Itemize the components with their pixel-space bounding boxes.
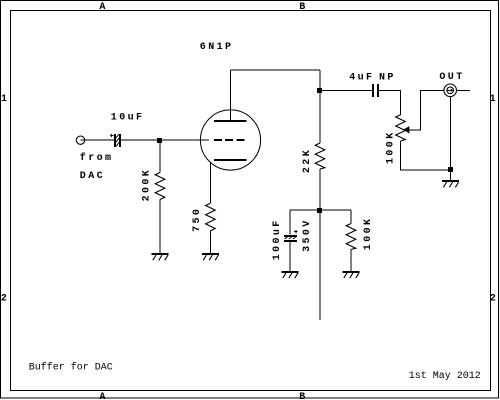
node junction grid input xyxy=(157,138,162,143)
node junction B+ xyxy=(317,208,322,213)
svg-text:100K: 100K xyxy=(386,130,397,164)
svg-text:Buffer for DAC: Buffer for DAC xyxy=(29,362,113,374)
wire 100K right top xyxy=(350,210,352,223)
ground bar 100K right xyxy=(343,271,360,273)
wire jack sleeve down xyxy=(450,97,452,180)
ground ticks OUT xyxy=(443,182,458,187)
wire 22K top xyxy=(319,93,321,143)
ground bar 100uF xyxy=(282,271,299,273)
plus sign C1 xyxy=(110,134,113,137)
wire C 4uF to pot top xyxy=(379,90,401,115)
wire B+ down xyxy=(319,213,321,321)
svg-text:B: B xyxy=(299,392,307,400)
wire input to cap xyxy=(81,139,114,141)
svg-text:100K: 100K xyxy=(363,217,374,251)
svg-text:750: 750 xyxy=(192,207,203,232)
svg-text:DAC: DAC xyxy=(80,171,105,182)
jack tip arrow xyxy=(451,89,454,92)
ground ticks 100K right xyxy=(344,273,359,278)
tube plate bar xyxy=(214,120,247,122)
node junction plate xyxy=(317,88,322,93)
svg-text:200K: 200K xyxy=(141,168,152,202)
tube grid dashes xyxy=(214,139,247,141)
svg-text:10uF: 10uF xyxy=(111,113,145,124)
wire pot bottom to out ground xyxy=(401,141,451,170)
potentiometer VR1 zigzag xyxy=(396,115,406,141)
resistor R3 22K zigzag xyxy=(315,143,325,169)
wire 100uF bottom to ground xyxy=(289,241,291,271)
ground bar R 200K xyxy=(152,253,169,255)
svg-text:A: A xyxy=(99,2,107,13)
wire cap to grid xyxy=(121,139,209,141)
wire R 750 to ground xyxy=(209,231,211,253)
ground ticks R 750 xyxy=(203,255,218,260)
resistor R1 200K zigzag xyxy=(155,173,165,200)
capacitor C3 hatch xyxy=(285,236,297,239)
wire junction down to R 200K xyxy=(159,140,161,173)
wire 100K right bottom to ground xyxy=(350,250,352,272)
wire down to plate junction xyxy=(319,70,321,90)
jack center pin line xyxy=(447,89,450,91)
svg-text:1: 1 xyxy=(1,94,9,105)
potentiometer wiper arrow xyxy=(403,126,409,133)
wire crossbar at B+ junction xyxy=(290,209,351,211)
svg-text:6N1P: 6N1P xyxy=(200,42,234,53)
capacitor C1 10uF plates xyxy=(114,134,116,147)
wire plate junction to C 4uF xyxy=(322,89,372,91)
wire top horizontal xyxy=(231,69,320,71)
ground ticks R 200K xyxy=(153,255,168,260)
terminal IN circle xyxy=(76,136,84,144)
capacitor C1 hatch xyxy=(116,134,119,146)
ground bar OUT xyxy=(442,180,459,182)
wire wiper to jack xyxy=(409,90,444,130)
svg-text:OUT: OUT xyxy=(439,72,464,83)
svg-text:1st May 2012: 1st May 2012 xyxy=(409,371,481,382)
node junction out ground xyxy=(448,167,453,172)
svg-text:2: 2 xyxy=(490,294,498,305)
capacitor C2 4uF plates xyxy=(372,84,374,97)
jack J1 outer circle xyxy=(444,84,457,97)
capacitor C3 100uF plates xyxy=(284,235,297,237)
wire R 200K to ground xyxy=(159,200,161,254)
wire plate lead xyxy=(230,70,232,121)
wire 100uF top xyxy=(289,210,291,234)
svg-text:A: A xyxy=(99,392,107,400)
jack J1 inner circle xyxy=(447,87,454,94)
svg-text:350V: 350V xyxy=(302,218,313,252)
svg-text:NP: NP xyxy=(379,73,396,84)
wire 22K bottom to junction xyxy=(319,169,321,210)
wire cathode lead xyxy=(209,162,211,203)
svg-text:22K: 22K xyxy=(302,148,313,173)
plus sign C3 xyxy=(294,230,297,233)
resistor R2 750 zigzag xyxy=(206,203,216,231)
ground bar R 750 xyxy=(202,253,219,255)
wire jack stub right xyxy=(457,89,471,91)
ground ticks 100uF xyxy=(283,273,298,278)
svg-text:4uF: 4uF xyxy=(349,73,374,84)
svg-text:1: 1 xyxy=(490,94,498,105)
svg-text:100uF: 100uF xyxy=(272,218,283,260)
svg-text:2: 2 xyxy=(1,294,9,305)
tube cathode bar xyxy=(214,159,247,161)
tube V1 envelope xyxy=(200,110,260,170)
svg-text:from: from xyxy=(80,152,114,164)
svg-text:B: B xyxy=(299,2,307,13)
resistor R4 100K zigzag xyxy=(346,224,356,250)
